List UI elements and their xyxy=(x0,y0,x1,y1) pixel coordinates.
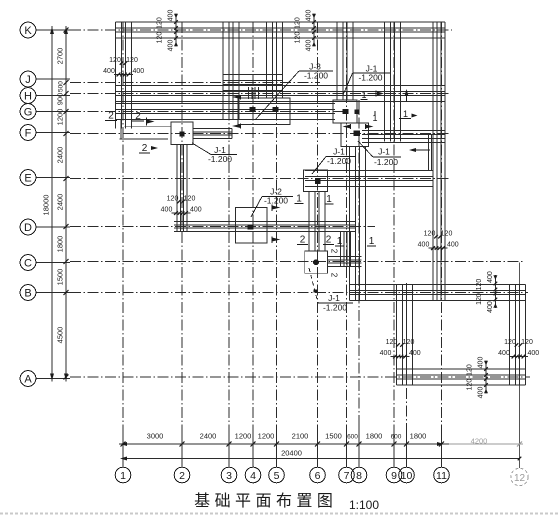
label J-1 pad 6/C xyxy=(309,268,353,313)
axis circle 2 xyxy=(174,467,190,483)
svg-text:120: 120 xyxy=(521,339,533,346)
svg-text:600: 600 xyxy=(347,434,358,441)
svg-text:1: 1 xyxy=(369,236,375,247)
axis circle 11 xyxy=(434,467,450,483)
column at 5/G xyxy=(272,107,278,112)
svg-text:1: 1 xyxy=(296,194,302,205)
strip footing wall axis 11 (east exterior) xyxy=(433,22,445,301)
svg-text:10: 10 xyxy=(401,470,413,482)
svg-text:8: 8 xyxy=(356,470,362,482)
svg-text:400: 400 xyxy=(447,242,459,249)
bottom chain ticks xyxy=(121,425,523,467)
dim cluster wall 10 (120/400) xyxy=(380,339,421,358)
section mark 2 below tab xyxy=(139,143,158,154)
section 1 arrow east of pad 8F xyxy=(409,148,430,152)
svg-text:120: 120 xyxy=(109,57,121,64)
label J-1 pad 7/G xyxy=(343,64,390,96)
svg-text:1200: 1200 xyxy=(258,432,275,441)
strip footing wall axis 9 xyxy=(385,22,401,142)
svg-text:-1.200: -1.200 xyxy=(323,303,347,313)
svg-text:H: H xyxy=(24,91,32,103)
svg-text:500: 500 xyxy=(58,81,65,92)
axis circle 8 xyxy=(351,467,367,483)
svg-text:400: 400 xyxy=(478,357,485,369)
svg-text:400: 400 xyxy=(190,207,202,214)
svg-text:1: 1 xyxy=(326,194,332,205)
strip footing wall K (top exterior) xyxy=(116,22,445,38)
svg-text:400: 400 xyxy=(161,207,173,214)
svg-text:120: 120 xyxy=(403,339,415,346)
strip footing wall axis 7 xyxy=(337,22,353,100)
column at 4/G xyxy=(249,107,255,112)
svg-text:120: 120 xyxy=(126,57,138,64)
column at 4/D xyxy=(247,225,253,230)
svg-text:2400: 2400 xyxy=(56,194,65,211)
svg-text:120: 120 xyxy=(295,32,302,44)
title text xyxy=(194,492,333,510)
svg-text:2: 2 xyxy=(330,249,339,254)
strip footing wall D (axis 2-8) xyxy=(174,222,356,232)
svg-text:J-1: J-1 xyxy=(333,147,345,157)
axis circle B xyxy=(20,285,36,301)
strip footing F east (pad J-1 to axis 11) xyxy=(362,131,445,143)
grid line 2 xyxy=(181,22,183,468)
strip footing wall axis 3 xyxy=(223,22,239,120)
strip footing wall G (axis 1 to pad J-1) xyxy=(116,104,335,120)
column at 2/F xyxy=(180,131,185,136)
axis circle 4 xyxy=(245,467,261,483)
svg-text:4500: 4500 xyxy=(56,327,65,344)
svg-text:18000: 18000 xyxy=(42,195,51,216)
grid line 4 xyxy=(252,22,254,468)
svg-text:400: 400 xyxy=(527,350,539,357)
section labels 2 2 on wall D xyxy=(297,235,334,246)
strip footing wall axis 12 (B to A) xyxy=(510,285,526,386)
svg-text:F: F xyxy=(25,128,32,140)
svg-text:2100: 2100 xyxy=(292,432,309,441)
axis circle J xyxy=(20,71,36,87)
bottom edge artifact row xyxy=(0,513,560,515)
svg-text:400: 400 xyxy=(168,10,175,22)
svg-text:900: 900 xyxy=(56,93,65,106)
grid line 8 xyxy=(358,100,360,468)
svg-text:1: 1 xyxy=(361,90,366,100)
svg-text:1200: 1200 xyxy=(56,109,65,126)
column at 8/F xyxy=(354,131,361,136)
svg-text:1800: 1800 xyxy=(56,236,65,253)
section mark 1 in room R6 xyxy=(399,89,418,119)
section label 1 in big room xyxy=(367,236,376,247)
svg-text:基 础 平 面 布 置 图: 基 础 平 面 布 置 图 xyxy=(194,492,333,510)
svg-text:400: 400 xyxy=(418,242,430,249)
pad footing J-1 at 8/F xyxy=(341,123,369,147)
svg-text:120: 120 xyxy=(386,339,398,346)
label J-1 pad 2/F xyxy=(192,143,237,164)
svg-text:1800: 1800 xyxy=(410,432,427,441)
axis circle G xyxy=(20,104,36,120)
svg-text:B: B xyxy=(24,288,31,300)
pad footing J-1 at 6/C xyxy=(305,251,328,273)
left chain ticks and stubs xyxy=(36,28,71,380)
grid line D xyxy=(70,226,375,228)
svg-text:2: 2 xyxy=(179,470,185,482)
strip footing wall H (axis 1-11) xyxy=(116,86,445,102)
axis circle E xyxy=(20,170,36,186)
grid line 10 xyxy=(406,283,408,468)
svg-text:-1.200: -1.200 xyxy=(374,157,398,167)
strip footing wall axis 1 (west exterior) xyxy=(116,22,132,129)
label J-1 pad 8/F xyxy=(358,141,401,167)
dim cluster wall K at axis 6 (120/400) xyxy=(295,10,316,52)
axis circle K xyxy=(20,22,36,38)
svg-text:400: 400 xyxy=(103,68,115,75)
bottom chain line 1 xyxy=(119,443,523,445)
svg-text:J-1: J-1 xyxy=(378,147,390,157)
dim cluster wall 11 (120/400) xyxy=(418,231,459,250)
svg-text:J: J xyxy=(25,74,31,86)
strip footing F west stub xyxy=(119,120,171,140)
axis circle 6 xyxy=(310,467,326,483)
svg-text:J-1: J-1 xyxy=(328,293,340,303)
axis circle 12 (grey dashed) xyxy=(511,468,528,485)
dim cluster wall 2 (120/400) xyxy=(161,196,202,215)
column at 7/G xyxy=(342,109,348,114)
section labels 1 1 beside pad 6/E xyxy=(295,194,334,206)
bottom chain dimension texts xyxy=(147,432,488,458)
svg-text:3000: 3000 xyxy=(147,432,164,441)
svg-text:120: 120 xyxy=(467,379,474,391)
grid line 9 xyxy=(393,22,395,468)
svg-text:400: 400 xyxy=(478,387,485,399)
svg-text:120: 120 xyxy=(424,231,436,238)
strip footing wall C stub (pad to axis 8) xyxy=(327,257,362,267)
grid line 12 extension (axis 12) xyxy=(519,263,521,469)
svg-text:400: 400 xyxy=(380,350,392,357)
title scale 1:100 xyxy=(349,498,379,512)
svg-text:4: 4 xyxy=(250,470,256,482)
dim cluster wall K at axis 2 (120/400) xyxy=(157,10,178,52)
label J-1 pad 6/E xyxy=(312,147,356,175)
label J-3 pad 4-5/G xyxy=(255,62,333,121)
dim cluster wall 12 (120/400) xyxy=(498,339,539,358)
svg-text:2400: 2400 xyxy=(56,147,65,164)
bottom chain line 2 (20400) xyxy=(123,458,520,460)
svg-text:120: 120 xyxy=(295,17,302,29)
svg-text:120: 120 xyxy=(157,32,164,44)
rotated section glyphs at C stub xyxy=(330,249,339,278)
svg-text:120: 120 xyxy=(184,196,196,203)
section arrows at pads 7-8 xyxy=(343,90,385,129)
strip footing wall axis 5 xyxy=(267,22,283,98)
strip footing wall axis 4 stub xyxy=(249,87,259,99)
strip footing wall J (axis 3-5) xyxy=(223,75,283,91)
svg-text:2700: 2700 xyxy=(56,48,65,65)
svg-text:120: 120 xyxy=(476,279,483,291)
column dot at 6/C xyxy=(313,259,319,265)
small tick at B near wall 8 xyxy=(314,290,318,293)
left chain dimension texts xyxy=(42,48,65,344)
svg-text:1:100: 1:100 xyxy=(349,498,379,512)
grid line 6 xyxy=(317,22,319,468)
left chain end arrows xyxy=(50,27,68,381)
pad footing J-1 at 2/F xyxy=(171,122,193,145)
strip footing wall axis 6 (E to C) xyxy=(309,192,325,252)
strip footing wall axis 7 lower (D to C) xyxy=(341,232,351,267)
grid line C xyxy=(70,261,525,263)
svg-text:3: 3 xyxy=(226,470,232,482)
wall stub lines x430 F to E xyxy=(429,135,432,171)
strip footing wall axis 10 (B to A) xyxy=(397,285,413,386)
svg-text:-1.200: -1.200 xyxy=(208,154,232,164)
svg-text:G: G xyxy=(24,107,33,119)
grid line 11 xyxy=(441,22,443,468)
strip footing wall E (axis 6-11) xyxy=(305,171,433,187)
svg-text:2400: 2400 xyxy=(200,432,217,441)
grid line H xyxy=(70,93,450,95)
column at 8/G xyxy=(355,109,360,114)
svg-text:120: 120 xyxy=(476,293,483,305)
label J-2 pad 4/D xyxy=(251,187,293,218)
grid line A xyxy=(70,376,530,378)
svg-text:400: 400 xyxy=(487,271,494,283)
svg-text:120: 120 xyxy=(157,17,164,29)
grid line 1 xyxy=(122,22,124,468)
axis circle C xyxy=(20,255,36,271)
svg-text:1500: 1500 xyxy=(56,269,65,286)
svg-text:-1.200: -1.200 xyxy=(304,71,328,81)
svg-text:-1.200: -1.200 xyxy=(358,73,382,83)
section label 1 left of axis 8 xyxy=(335,236,344,247)
axis circle D xyxy=(20,219,36,235)
svg-text:-1.200: -1.200 xyxy=(327,156,351,166)
dim cluster wall 1 (120/400) xyxy=(103,57,144,76)
svg-text:5: 5 xyxy=(274,470,280,482)
svg-text:20400: 20400 xyxy=(281,449,302,458)
svg-text:-1.200: -1.200 xyxy=(264,196,288,206)
axis circle 1 xyxy=(115,467,131,483)
svg-text:2: 2 xyxy=(326,235,332,246)
strip footing wall axis 2 (pad to D) xyxy=(177,145,187,232)
grid line 7 xyxy=(346,22,348,468)
section arrows at F stub end xyxy=(232,95,241,129)
svg-text:1800: 1800 xyxy=(366,432,383,441)
svg-text:120: 120 xyxy=(441,231,453,238)
strip footing wall B (axis 8-12) xyxy=(350,285,526,301)
svg-text:400: 400 xyxy=(132,68,144,75)
svg-text:C: C xyxy=(24,258,32,270)
svg-text:4200: 4200 xyxy=(471,437,488,446)
svg-text:2: 2 xyxy=(300,235,306,246)
section arrows 2-2 near pad J-2 xyxy=(272,205,281,244)
svg-text:1: 1 xyxy=(403,109,408,119)
grid line 3 xyxy=(228,22,230,468)
strip footing F stub (axis 2-3) xyxy=(193,129,232,139)
svg-text:A: A xyxy=(24,374,32,386)
grid line E xyxy=(70,178,450,180)
svg-text:400: 400 xyxy=(409,350,421,357)
svg-text:400: 400 xyxy=(487,301,494,313)
left chain lines xyxy=(50,26,66,382)
svg-text:11: 11 xyxy=(436,470,447,482)
axis circle F xyxy=(20,125,36,141)
axis circle 5 xyxy=(269,467,285,483)
svg-text:1: 1 xyxy=(120,470,126,482)
svg-text:7: 7 xyxy=(344,470,350,482)
axis circle 10 xyxy=(399,467,415,483)
svg-text:120: 120 xyxy=(467,364,474,376)
pad footing J-3 at 4-5/G xyxy=(238,98,290,125)
bottom chain end arrows xyxy=(120,442,521,461)
svg-text:1: 1 xyxy=(337,236,343,247)
column at 6/E xyxy=(315,178,320,184)
strip footing wall A (axis 10-12) xyxy=(397,369,526,385)
svg-text:600: 600 xyxy=(391,434,402,441)
grid line G xyxy=(70,111,350,113)
svg-text:1200: 1200 xyxy=(235,432,252,441)
svg-text:400: 400 xyxy=(498,350,510,357)
grid line J xyxy=(70,82,320,84)
svg-text:6: 6 xyxy=(315,470,321,482)
svg-text:E: E xyxy=(24,173,31,185)
axis circle A xyxy=(20,371,36,387)
svg-text:1500: 1500 xyxy=(325,432,342,441)
grid line 5 xyxy=(276,22,278,468)
axis circle 9 xyxy=(386,467,402,483)
svg-text:K: K xyxy=(24,25,32,37)
svg-text:400: 400 xyxy=(168,40,175,52)
grid line F xyxy=(70,133,450,135)
pad footing J-1 at 6/E xyxy=(304,170,328,192)
axis circle 3 xyxy=(221,467,237,483)
dim cluster wall A (120/400) xyxy=(467,357,488,399)
svg-text:120: 120 xyxy=(504,339,516,346)
axis circle H xyxy=(20,88,36,104)
section mark 2-2 west wall xyxy=(105,111,155,126)
strip footing wall axis 8 (F to B) xyxy=(350,146,366,300)
axis circle 7 xyxy=(339,467,355,483)
grid line K xyxy=(70,29,452,31)
svg-text:400: 400 xyxy=(306,40,313,52)
svg-text:2: 2 xyxy=(330,273,339,278)
svg-text:9: 9 xyxy=(391,470,397,482)
svg-text:400: 400 xyxy=(306,10,313,22)
svg-text:D: D xyxy=(24,222,32,234)
dim cluster wall B at x486 (120/400) xyxy=(476,271,497,313)
pad footing J-2 at 4/D xyxy=(236,208,268,244)
svg-text:120: 120 xyxy=(167,196,179,203)
grid line B xyxy=(70,292,528,294)
svg-text:12: 12 xyxy=(514,473,526,484)
pad footing J-1 at 7/G xyxy=(333,100,357,123)
